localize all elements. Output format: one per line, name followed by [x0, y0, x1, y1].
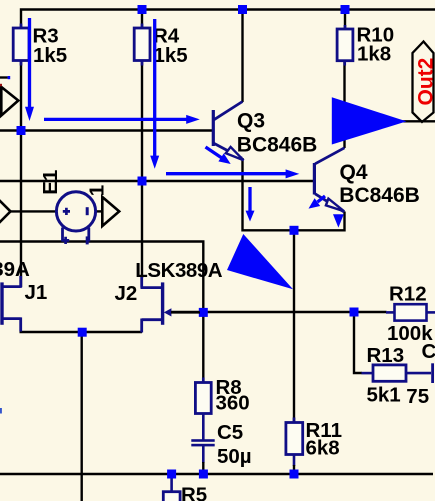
node junction C5 rail: [199, 470, 208, 479]
node junction R4 base: [138, 177, 147, 186]
node junction source coupling: [78, 328, 87, 337]
svg-text:E1: E1: [39, 170, 62, 195]
svg-text:BC846B: BC846B: [339, 184, 420, 207]
svg-text:Out2: Out2: [414, 58, 435, 106]
node junction R3 base: [17, 126, 26, 135]
node junction J2 gate: [199, 308, 208, 317]
wire top rail: [21, 10, 435, 29]
svg-text:LSK389A: LSK389A: [135, 259, 223, 282]
svg-text:R13: R13: [367, 344, 405, 367]
svg-text:Q4: Q4: [340, 161, 368, 184]
wire R3 column lower: [20, 61, 22, 288]
wire R12 right lead: [427, 311, 435, 314]
wire output net to Out2: [345, 120, 435, 122]
svg-text:C: C: [422, 340, 435, 363]
wire R8 column: [202, 312, 204, 383]
buffer gain 1 of E1: [86, 185, 120, 226]
resistor R11: [286, 419, 342, 460]
transistor Q3: [213, 102, 317, 161]
resistor R4: [134, 24, 188, 67]
svg-text:75: 75: [406, 385, 429, 408]
resistor R8: [195, 376, 249, 415]
current arrow Q3 emitter leg down: [246, 187, 255, 222]
wire Q3 collector column: [241, 10, 243, 103]
wire R13 to C right: [406, 372, 431, 375]
svg-text:J1: J1: [25, 281, 48, 304]
svg-text:1k5: 1k5: [33, 44, 67, 67]
partial source symbol top left: [1, 87, 18, 116]
red dot left edge: [0, 84, 2, 87]
svg-text:1: 1: [86, 185, 109, 196]
wire Q4 base net y=181: [0, 180, 315, 182]
wire E1 input y=211.4: [10, 210, 57, 212]
current arrow base Q3 right: [44, 115, 200, 124]
capacitor C5: [191, 421, 251, 468]
svg-text:360: 360: [216, 392, 250, 415]
node junction R11 rail: [290, 470, 299, 479]
node junction top R4: [138, 5, 147, 14]
wire tail current column: [80, 332, 82, 501]
svg-text:39A: 39A: [0, 258, 30, 281]
resistor R5: [163, 484, 207, 501]
wire source coupling y=332: [20, 331, 143, 333]
wire Q3 base net y=130: [0, 129, 214, 131]
svg-text:5k1: 5k1: [367, 384, 401, 407]
node junction top R10: [341, 5, 350, 14]
partial buffer tip left edge: [0, 194, 11, 229]
wire E1 buffer output stub: [95, 210, 103, 212]
current arrow Q4 emitter diagonal: [309, 196, 326, 209]
current arrow R3 down: [25, 18, 34, 121]
big arrow feedback node: [227, 234, 293, 289]
blue sliver left edge: [0, 408, 2, 414]
wire control net y=241.5 down to J2 gate: [0, 242, 203, 314]
svg-text:50µ: 50µ: [217, 445, 252, 468]
resistor R10: [337, 24, 394, 66]
wire Q4 emitter to shared node: [294, 212, 345, 231]
node junction shared emitter: [290, 226, 299, 235]
svg-text:BC846B: BC846B: [237, 134, 318, 157]
capacitor C right edge: [406, 340, 435, 408]
current arrow R4 down: [150, 19, 159, 169]
node junction R5 rail: [167, 470, 176, 479]
wire R4 column lower to J2 drain: [141, 61, 143, 279]
wire R4 column top: [141, 10, 143, 29]
svg-text:1k8: 1k8: [357, 43, 391, 66]
svg-text:C5: C5: [217, 421, 243, 444]
wire R13 branch: [354, 312, 362, 373]
wire R10 bottom to Q4 collector: [343, 61, 345, 148]
resistor R12: [387, 283, 433, 345]
resistor R3: [13, 24, 67, 67]
svg-text:R5: R5: [181, 484, 207, 501]
wire C5 to rail: [202, 446, 205, 463]
wire R5 top lead: [170, 477, 173, 492]
svg-text:R12: R12: [389, 283, 427, 306]
wire R11 bottom to rail: [293, 455, 296, 467]
blue tick left stub: [8, 76, 11, 79]
current arrow Q3 emitter diagonal: [206, 147, 231, 164]
wire shared emitter node down to R11: [293, 229, 295, 423]
VCVS E1: [39, 170, 96, 245]
wire bottom rail: [0, 473, 433, 475]
wire R10 top lead: [344, 10, 346, 30]
transistor Q4: [314, 148, 419, 212]
JFET J2: [115, 277, 201, 333]
svg-text:1k5: 1k5: [154, 44, 188, 67]
tag Out2: [413, 42, 435, 123]
JFET J1: [2, 276, 47, 332]
current arrow base Q4 right: [166, 169, 299, 178]
wire R8 to C5: [202, 414, 205, 441]
resistor R13: [367, 344, 407, 407]
svg-text:Q3: Q3: [237, 110, 265, 133]
svg-text:J2: J2: [115, 282, 138, 305]
svg-text:6k8: 6k8: [306, 437, 340, 460]
node junction top Q3 collector: [238, 5, 247, 14]
wire feedback net y=312: [170, 311, 387, 313]
resistor lead stubs (navy): [21, 24, 345, 423]
wire stub left edge y=77.5: [0, 76, 8, 78]
big arrow output Out2: [332, 97, 407, 144]
wire Q3 emitter to shared node: [243, 158, 295, 230]
current arrow Q4 emitter leg down: [333, 214, 344, 227]
node junction R12 tee: [350, 308, 359, 317]
